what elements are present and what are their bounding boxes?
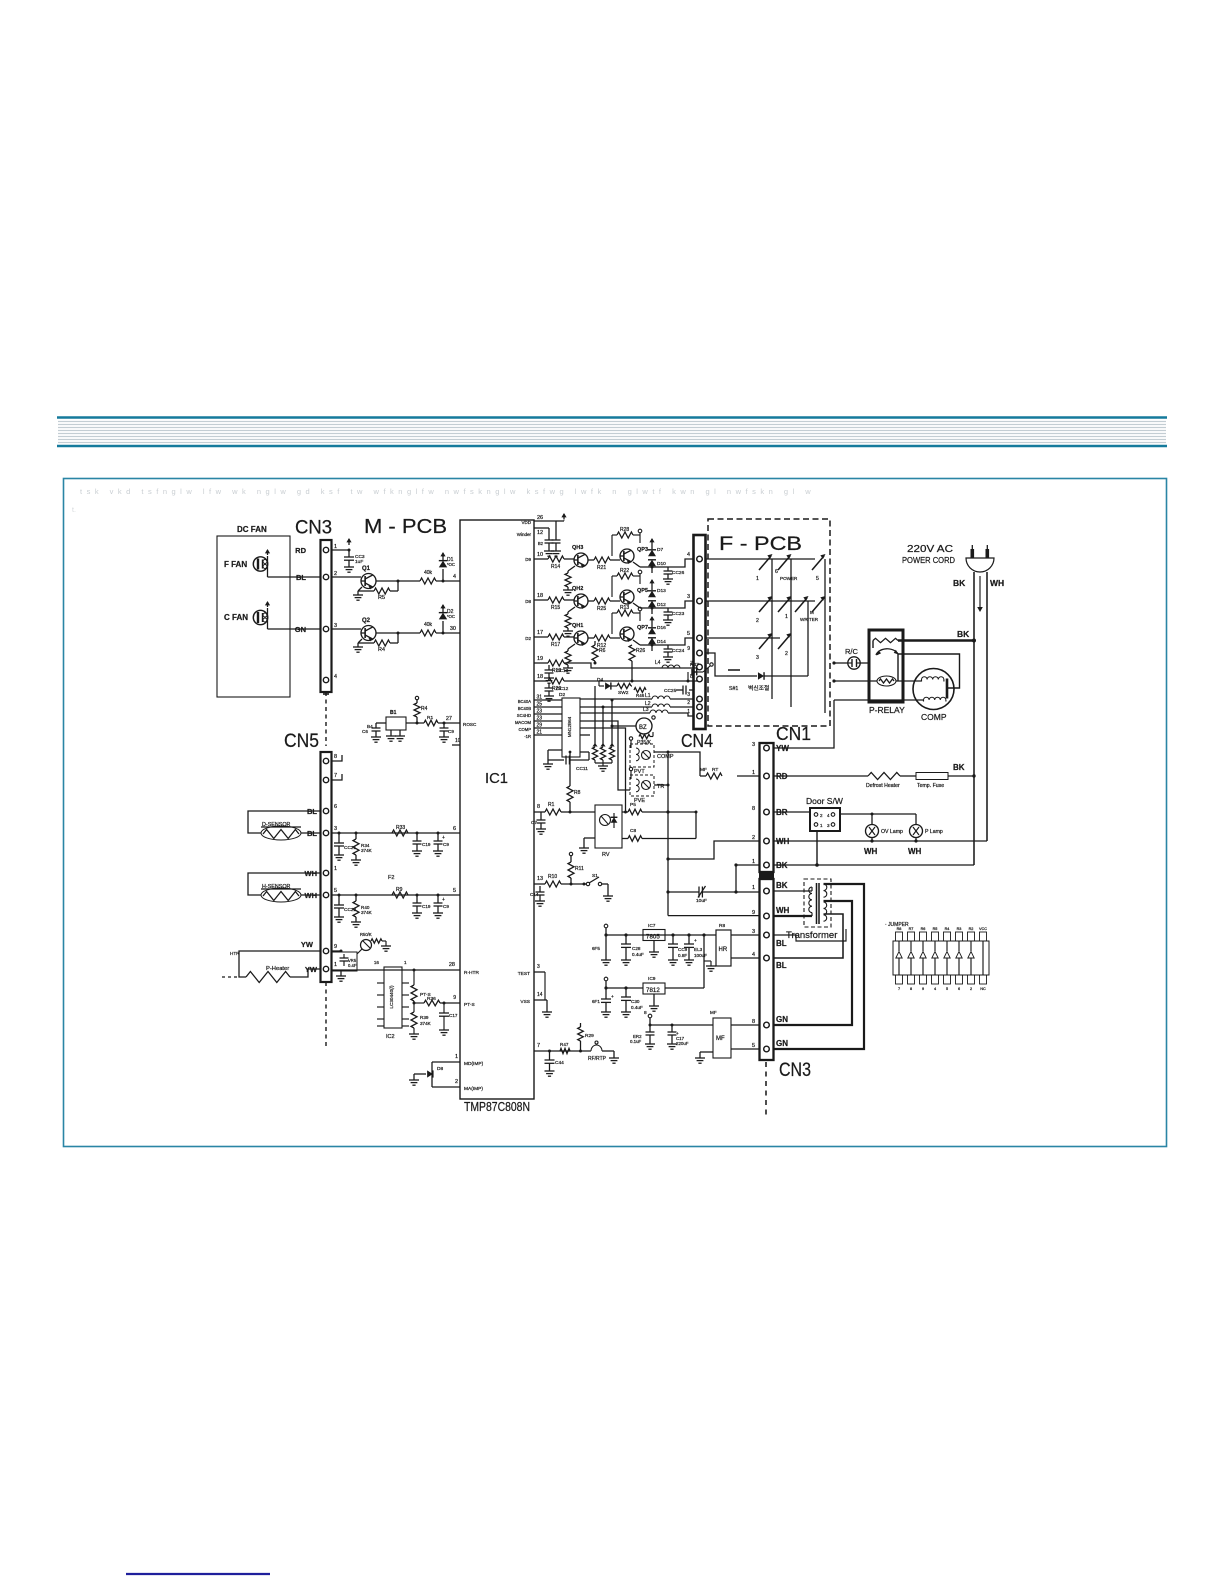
capacitor C9b polarized <box>437 833 439 841</box>
outer frame <box>64 479 1167 1147</box>
ground Q2 emitter <box>358 639 362 643</box>
lamp P <box>910 825 923 838</box>
sensor D-SENSOR <box>248 811 320 833</box>
svg-text:R36: R36 <box>427 996 436 1002</box>
CN1 pin BR <box>764 809 770 815</box>
wire key pin stub <box>580 734 590 736</box>
wire contact to coil link <box>897 654 899 681</box>
svg-text:P35/K: P35/K <box>637 740 652 746</box>
ground S1 <box>603 895 613 897</box>
svg-text:1: 1 <box>404 960 407 965</box>
resistor R15 <box>548 597 564 603</box>
terminal PVE input <box>629 767 632 770</box>
svg-text:R21: R21 <box>597 565 606 571</box>
svg-text:0.4uF: 0.4uF <box>632 952 644 957</box>
key matrix row 2 wire <box>706 600 816 602</box>
wire vertical bus x668 <box>667 752 669 916</box>
capacitor C6 left of B1 <box>375 723 377 728</box>
svg-text:*OC: *OC <box>447 562 455 567</box>
svg-text:H-SENSOR: H-SENSOR <box>262 884 291 890</box>
svg-text:MD(IMP): MD(IMP) <box>464 1061 484 1067</box>
resistor QH2 emitter <box>568 607 575 612</box>
svg-text:6: 6 <box>958 987 960 991</box>
motor F FAN <box>253 557 267 571</box>
resistor Q1 collector <box>420 578 436 584</box>
wire heater to BK thick <box>898 639 974 642</box>
ground MF <box>700 1051 713 1053</box>
ground hook on vertical <box>704 960 711 962</box>
svg-text:1: 1 <box>455 1054 458 1060</box>
resistor R25 <box>588 600 594 602</box>
svg-text:R1: R1 <box>548 802 555 808</box>
svg-text:GN: GN <box>776 1039 788 1048</box>
wire BR to door <box>773 811 810 813</box>
svg-text:R29: R29 <box>585 1033 594 1039</box>
svg-text:C7: C7 <box>531 820 537 825</box>
CN5 pin 7 <box>323 777 328 782</box>
svg-text:R17: R17 <box>551 642 560 648</box>
svg-text:3: 3 <box>752 929 755 935</box>
resistor R12 <box>588 637 594 639</box>
CN1/CN3 separator <box>759 872 774 879</box>
svg-text:COMP: COMP <box>657 754 674 760</box>
jumper cell 5 <box>944 932 951 941</box>
ground resonator caps <box>544 550 554 552</box>
svg-text:t.: t. <box>72 507 76 514</box>
svg-text:BK: BK <box>776 881 788 890</box>
resistor R13 feedback <box>612 612 617 614</box>
svg-text:D16: D16 <box>657 625 666 631</box>
svg-text:F - PCB: F - PCB <box>719 533 802 555</box>
key switch r2c <box>795 598 807 612</box>
svg-text:16: 16 <box>374 960 380 965</box>
key column A <box>771 559 773 699</box>
wire to CN4 pin 5 <box>668 638 693 645</box>
wire Q1 collector <box>376 580 420 582</box>
diode S#1 <box>741 675 757 677</box>
svg-text:C9: C9 <box>443 842 449 847</box>
svg-text:R26: R26 <box>636 648 645 654</box>
header thin gray rules <box>58 421 1166 423</box>
svg-text:CC23: CC23 <box>672 611 685 617</box>
svg-text:3: 3 <box>537 964 540 970</box>
resistor R34 vertical <box>353 839 359 855</box>
capacitor 10uF on BK net <box>668 891 699 893</box>
svg-text:1: 1 <box>687 709 690 715</box>
svg-text:R6: R6 <box>599 648 606 654</box>
svg-text:9: 9 <box>453 995 456 1001</box>
svg-text:-1R: -1R <box>524 734 531 739</box>
svg-text:GN: GN <box>295 625 306 634</box>
IC IC2 <box>384 967 402 1028</box>
svg-text:EL3: EL3 <box>694 947 703 952</box>
svg-text:WH: WH <box>908 847 922 856</box>
resistor R26h <box>548 678 564 684</box>
svg-text:SW2: SW2 <box>618 690 629 696</box>
svg-text:BK: BK <box>953 578 966 588</box>
wire QP3 emitter to output <box>633 562 640 567</box>
IC1 pin 27 resonator B1 <box>446 722 460 724</box>
jumper cell 4 <box>932 932 939 941</box>
ground QH2 <box>567 628 569 631</box>
svg-text:C FAN: C FAN <box>224 613 248 622</box>
svg-text:YW: YW <box>776 744 789 753</box>
svg-text:6F5: 6F5 <box>592 946 600 951</box>
svg-text:8: 8 <box>537 804 540 810</box>
svg-text:MACOM: MACOM <box>515 720 532 725</box>
wire Q2 collector <box>376 632 420 634</box>
wire RD to PVT net <box>737 775 760 777</box>
IC1 pin 17 <box>534 636 548 638</box>
svg-text:S1: S1 <box>592 873 598 879</box>
svg-text:C28: C28 <box>632 946 641 951</box>
resistor R46 <box>634 688 646 693</box>
CN3 pin 4 <box>323 677 328 682</box>
capacitor C28 <box>625 935 627 944</box>
capacitor C30 <box>625 988 627 997</box>
svg-text:IC2: IC2 <box>386 1034 395 1040</box>
svg-text:25: 25 <box>537 702 543 708</box>
svg-text:R13: R13 <box>620 605 629 611</box>
svg-text:D2: D2 <box>559 692 565 698</box>
wire QP5 emitter to output <box>633 603 640 608</box>
svg-text:40k: 40k <box>424 622 433 628</box>
capacitor C17a <box>544 812 546 818</box>
diode D4 <box>599 685 604 687</box>
resistor R47 with terminal <box>687 672 689 681</box>
key matrix row 3 wire <box>706 637 781 639</box>
svg-text:SC4HD: SC4HD <box>517 713 531 718</box>
svg-text:WH: WH <box>776 906 790 915</box>
svg-text:R-HTR: R-HTR <box>464 970 479 976</box>
svg-text:C14: C14 <box>530 892 539 897</box>
key column D <box>824 559 826 713</box>
svg-text:CN5: CN5 <box>284 731 319 752</box>
motor C FAN <box>253 610 267 624</box>
capacitor CC22 <box>338 895 340 905</box>
wire YW feed from CN1 <box>773 700 834 748</box>
wire 5V to 12V vertical <box>703 935 705 988</box>
zener diode D2 <box>442 621 444 633</box>
capacitor C15 <box>416 895 418 903</box>
IC1 pin 18 <box>534 599 548 601</box>
fuse Temp Fuse <box>900 775 916 777</box>
svg-text:F FAN: F FAN <box>224 560 247 569</box>
resistor QH1 emitter <box>568 644 575 649</box>
svg-text:+: + <box>442 835 445 841</box>
wire WH to primary thick <box>773 915 812 917</box>
wire WH lower branch <box>668 915 759 917</box>
svg-text:374K: 374K <box>361 848 373 853</box>
power plug <box>966 558 994 572</box>
svg-text:P5: P5 <box>630 802 636 808</box>
switch S#1 <box>727 675 741 677</box>
key switch 6 <box>778 556 790 570</box>
svg-text:C8: C8 <box>630 828 636 834</box>
arrow down mains <box>979 576 981 608</box>
svg-text:MF: MF <box>710 1010 717 1015</box>
svg-text:3: 3 <box>687 594 690 600</box>
svg-text:2: 2 <box>687 700 690 706</box>
COMP right bar <box>946 679 949 699</box>
CN4 pin at y559 <box>697 556 703 562</box>
svg-text:3: 3 <box>827 823 830 828</box>
svg-text:RV: RV <box>602 852 610 858</box>
svg-text:Winder: Winder <box>517 532 532 537</box>
resistor R29 vertical <box>578 1027 584 1041</box>
svg-text:374K: 374K <box>420 1021 432 1026</box>
svg-text:MF: MF <box>700 767 707 773</box>
svg-text:40k: 40k <box>424 570 433 576</box>
svg-text:7: 7 <box>334 773 337 779</box>
capacitor C17b <box>443 1003 445 1013</box>
svg-text:2: 2 <box>820 813 823 818</box>
IC1 pin 1 MD <box>432 1061 460 1063</box>
grounds under B1 <box>390 730 392 736</box>
terminal 12V <box>604 977 608 981</box>
IC1 pin TEST <box>534 971 545 973</box>
capacitor C29 <box>672 935 674 944</box>
wire relay coil left <box>834 680 877 682</box>
svg-text:3: 3 <box>752 742 755 748</box>
resistor R1 to pin 27 <box>424 720 438 726</box>
svg-text:C30: C30 <box>631 999 640 1004</box>
key switch r2b <box>778 598 790 612</box>
capacitor C3 <box>348 550 350 557</box>
svg-text:5: 5 <box>334 888 337 894</box>
svg-text:D8: D8 <box>437 1066 443 1072</box>
transformer secondary upper <box>824 884 827 897</box>
CN3L pin 4 <box>764 955 770 961</box>
bottom bus wires <box>706 698 773 700</box>
svg-text:9: 9 <box>922 987 924 991</box>
jumper cell 6 <box>956 932 963 941</box>
svg-text:QH3: QH3 <box>572 545 583 551</box>
RV lower pin resistor <box>622 838 628 840</box>
CN5 dashed stub below <box>325 982 327 1046</box>
svg-text:2: 2 <box>970 987 972 991</box>
svg-text:8: 8 <box>644 1010 647 1016</box>
connector CN1 bar <box>760 743 774 872</box>
svg-text:HTR: HTR <box>230 951 240 956</box>
diode D14 <box>648 638 656 644</box>
CN3 pin 2 <box>323 574 328 579</box>
svg-text:B1: B1 <box>390 710 397 716</box>
svg-text:R3: R3 <box>957 927 962 931</box>
svg-text:ROSC: ROSC <box>463 722 477 727</box>
resistor P-Heater <box>239 951 320 977</box>
svg-text:7812: 7812 <box>646 987 660 994</box>
svg-text:8: 8 <box>752 806 755 812</box>
resistor R1b <box>545 809 561 815</box>
svg-text:RT: RT <box>712 767 718 773</box>
svg-text:MN12B64: MN12B64 <box>567 716 572 737</box>
svg-text:4: 4 <box>752 952 755 958</box>
svg-text:TEST: TEST <box>518 971 530 977</box>
IC1 key pins to encoder <box>534 699 562 701</box>
CN5 pin 1 <box>323 966 328 971</box>
svg-text:R5: R5 <box>378 595 385 601</box>
capacitor CC12 <box>548 683 550 688</box>
wire MF row <box>650 1024 713 1026</box>
svg-text:R15: R15 <box>551 605 560 611</box>
svg-text:5: 5 <box>752 1043 755 1049</box>
wire WH row <box>773 840 987 842</box>
DC FAN box <box>217 536 290 697</box>
IC1 pin 18 <box>534 680 548 682</box>
svg-text:R4: R4 <box>421 706 428 712</box>
svg-text:BK: BK <box>957 629 970 639</box>
capacitor C7 <box>544 811 546 813</box>
resistor R10 <box>545 881 561 887</box>
svg-text:D-SENSOR: D-SENSOR <box>262 822 291 828</box>
svg-text:2: 2 <box>785 651 788 657</box>
wire contact to COMP bar <box>898 654 960 688</box>
svg-text:13: 13 <box>537 876 543 882</box>
key switch r2d <box>812 598 824 612</box>
svg-text:+: + <box>442 897 445 903</box>
resistor R22 feedback <box>612 575 617 577</box>
svg-text:4: 4 <box>453 574 456 580</box>
svg-text:R1: R1 <box>427 715 433 721</box>
svg-text:8: 8 <box>910 987 912 991</box>
svg-text:C19: C19 <box>422 842 431 847</box>
CN4 pin at y699 <box>697 696 703 702</box>
svg-text:CN3: CN3 <box>295 518 332 539</box>
wire PVE out <box>654 784 668 786</box>
key column B <box>790 559 792 707</box>
resistor R4 feedback <box>358 642 374 644</box>
jumper cell 1 <box>896 932 903 941</box>
CN3L pin 1 <box>764 888 770 894</box>
capacitor CC23 <box>652 607 668 609</box>
wire key pin to PVE drop <box>580 721 630 790</box>
svg-text:CC12: CC12 <box>556 686 569 692</box>
svg-text:COMP: COMP <box>518 727 531 732</box>
compressor COMP <box>913 669 954 710</box>
svg-text:C17: C17 <box>449 1013 458 1018</box>
svg-text:D12: D12 <box>657 602 666 608</box>
CN3 pin 3 <box>323 626 328 631</box>
IC1 pin 10 stub <box>452 744 460 746</box>
svg-text:374K: 374K <box>361 910 373 915</box>
capacitor CC26 <box>652 566 668 568</box>
resistor R5 feedback <box>358 590 374 592</box>
svg-text:7805: 7805 <box>646 934 660 941</box>
CN4 pin at y707 <box>697 704 703 710</box>
svg-text:POWER CORD: POWER CORD <box>902 556 955 565</box>
zener diode D1 <box>442 569 444 581</box>
svg-text:R4: R4 <box>945 927 950 931</box>
svg-text:BL: BL <box>776 961 787 970</box>
wire CN5 pin YW to VR5 <box>331 950 341 952</box>
svg-text:31: 31 <box>537 695 543 701</box>
svg-text:2: 2 <box>756 618 759 624</box>
svg-text:WRITER: WRITER <box>800 617 819 622</box>
dashed stub left of P-Heater <box>222 976 239 978</box>
photocoupler PVE <box>630 775 654 796</box>
CN3L pin 9 <box>764 913 770 919</box>
svg-text:30: 30 <box>450 626 456 632</box>
svg-text:VSS: VSS <box>520 999 530 1005</box>
CN3L pin 5 <box>764 1046 770 1052</box>
transformer core <box>816 883 818 924</box>
arrow above C FAN node <box>267 602 269 607</box>
svg-text:QP7: QP7 <box>637 625 648 631</box>
wire mains BK vertical <box>973 572 975 865</box>
wire BK branch vertical <box>735 865 737 892</box>
svg-text:M - PCB: M - PCB <box>364 516 447 538</box>
wire pin8 to RV <box>570 811 595 813</box>
opto RV <box>595 805 622 848</box>
svg-text:R22: R22 <box>620 568 629 574</box>
sensor H-SENSOR <box>248 873 320 895</box>
CN5 pin 8 stub <box>331 755 342 761</box>
wire F FAN to CN3 pin 2 <box>267 556 269 577</box>
CN3L pin 8 <box>764 1022 770 1028</box>
resistor R17 <box>548 634 564 640</box>
jumper cell 7 <box>968 932 975 941</box>
CN4 pin at y716 <box>697 713 703 719</box>
svg-text:2: 2 <box>455 1079 458 1085</box>
wire scan vertical C <box>611 700 613 744</box>
svg-text:R5: R5 <box>933 927 938 931</box>
rail 5V <box>606 934 716 936</box>
svg-text:S#1: S#1 <box>729 686 738 692</box>
resistor R26 vertical <box>629 645 635 661</box>
wire to CN4 pin 3 <box>668 601 693 608</box>
svg-text:C44: C44 <box>555 1060 564 1066</box>
svg-text:WH: WH <box>864 847 878 856</box>
resistor R11 vertical <box>568 862 574 878</box>
resistor R33 <box>392 830 408 836</box>
regulator 7805 <box>643 930 665 941</box>
svg-text:6F1: 6F1 <box>592 999 600 1004</box>
resistor R36 <box>413 1001 415 1012</box>
wire to CN4 pin 4 <box>668 559 693 567</box>
svg-text:+: + <box>694 939 697 944</box>
svg-text:CN3: CN3 <box>779 1060 811 1081</box>
CN4 pin at y601 <box>697 598 703 604</box>
transistor QH3 <box>574 553 588 567</box>
connector CN3 lower bar <box>760 879 774 1060</box>
IC1 pin VSS <box>534 999 547 1001</box>
CN3 lower dashed stub <box>765 1062 767 1118</box>
svg-text:10uF: 10uF <box>696 898 707 904</box>
svg-text:23: 23 <box>537 709 543 715</box>
svg-text:R10: R10 <box>548 874 557 880</box>
svg-text:BK: BK <box>953 763 965 772</box>
relay P-RELAY box <box>869 630 903 702</box>
svg-text:COMP: COMP <box>921 712 947 722</box>
capacitor C7b polarized <box>437 895 439 903</box>
diode D7 <box>651 543 653 549</box>
svg-text:R8: R8 <box>897 927 902 931</box>
svg-text:R/C: R/C <box>845 647 859 656</box>
transistor QP3 <box>620 549 634 563</box>
svg-text:P Lamp: P Lamp <box>925 829 943 835</box>
wire COMP bottom coil left <box>834 699 924 701</box>
svg-text:LC30440(/): LC30440(/) <box>389 985 394 1008</box>
resistor R18 <box>548 660 564 666</box>
svg-text:tsk vkd tsfnglw lfw wk nglw gd: tsk vkd tsfnglw lfw wk nglw gd ksf tw wf… <box>80 487 815 496</box>
capacitor C44 <box>548 1050 551 1053</box>
svg-text:Temp. Fuse: Temp. Fuse <box>917 783 944 789</box>
resistor RT on pin7 wire <box>560 1048 570 1053</box>
transistor QP7 <box>620 627 634 641</box>
svg-text:*OC: *OC <box>447 614 455 619</box>
svg-text:19: 19 <box>537 656 543 662</box>
